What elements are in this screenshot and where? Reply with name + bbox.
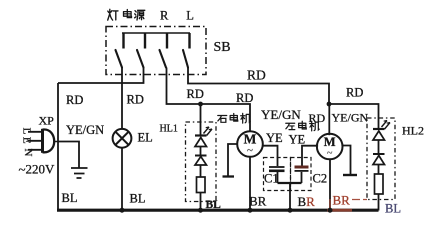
svg-text:RD: RD	[127, 93, 144, 107]
svg-text:BR: BR	[333, 193, 351, 208]
svg-text:BL: BL	[130, 192, 146, 206]
svg-text:YE/GN: YE/GN	[261, 107, 301, 122]
svg-text:E: E	[21, 137, 33, 144]
svg-text:RD: RD	[236, 91, 253, 105]
svg-text:L: L	[21, 128, 33, 135]
svg-text:HL1: HL1	[160, 124, 178, 135]
svg-text:C2: C2	[313, 172, 328, 186]
svg-text:RD: RD	[346, 86, 363, 100]
svg-text:YE: YE	[289, 132, 306, 146]
svg-text:XP: XP	[39, 114, 55, 128]
svg-text:~220V: ~220V	[19, 162, 56, 177]
svg-text:L: L	[186, 8, 194, 22]
svg-text:R: R	[160, 8, 169, 22]
svg-text:~: ~	[247, 145, 253, 157]
svg-text:EL: EL	[138, 131, 153, 145]
svg-text:HL2: HL2	[402, 124, 424, 138]
svg-text:SB: SB	[214, 40, 231, 55]
svg-text:YE: YE	[266, 131, 283, 145]
svg-text:N: N	[22, 149, 34, 157]
svg-text:C1: C1	[264, 172, 279, 186]
svg-text:RD: RD	[187, 87, 204, 101]
svg-text:BL: BL	[206, 199, 222, 211]
svg-text:BL: BL	[385, 202, 401, 216]
svg-text:YE/GN: YE/GN	[66, 123, 104, 137]
svg-text:BR: BR	[249, 194, 267, 209]
svg-text:M: M	[324, 135, 336, 149]
svg-text:BL: BL	[62, 191, 78, 205]
svg-text:~: ~	[327, 148, 333, 159]
svg-text:RD: RD	[309, 111, 326, 125]
svg-text:RD: RD	[66, 93, 83, 107]
svg-text:BR: BR	[298, 194, 316, 209]
svg-text:YE/GN: YE/GN	[332, 111, 369, 125]
svg-text:RD: RD	[247, 68, 266, 83]
